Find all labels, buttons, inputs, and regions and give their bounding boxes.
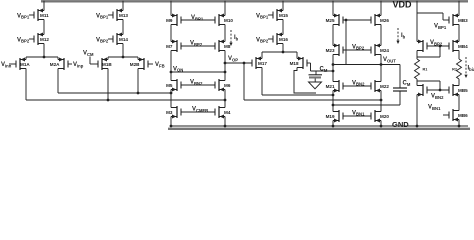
label VBP2 output row — [352, 44, 365, 50]
wire node VON — [170, 71, 227, 74]
svg-text:M11: M11 — [40, 13, 49, 18]
wire M10 source to VDD — [224, 1, 226, 16]
svg-text:M3: M3 — [166, 110, 173, 115]
wire gate node down to R1 top — [417, 46, 440, 57]
wire M22 source to M20 drain — [380, 91, 382, 112]
svg-text:MB6: MB6 — [458, 113, 468, 118]
wire M14 drain to pair B tail — [122, 44, 124, 58]
svg-text:M1B: M1B — [102, 62, 112, 67]
svg-text:M22: M22 — [380, 84, 389, 89]
label VBN1 bias and MB6 gate lead — [428, 105, 449, 116]
current arrow Ibias — [464, 57, 474, 78]
svg-text:M6: M6 — [224, 83, 231, 88]
resistor R1 — [415, 59, 420, 79]
wire M13 drain to M14 source — [122, 20, 124, 35]
svg-text:VBN1: VBN1 — [428, 105, 441, 111]
svg-text:CM: CM — [320, 67, 328, 73]
svg-text:VBP1: VBP1 — [191, 15, 204, 21]
current arrow Ib right — [396, 28, 405, 44]
wire pair A tail — [26, 57, 58, 60]
wire M8 drain to M6 drain (node VOP) — [224, 51, 226, 81]
svg-text:M17: M17 — [258, 61, 267, 66]
transistor M17 — [252, 57, 267, 70]
label VBP1 row — [191, 15, 204, 21]
transistor M12 — [34, 33, 49, 46]
svg-text:M5: M5 — [166, 83, 173, 88]
label VFB — [148, 62, 165, 68]
wire MB3 source to VDD — [458, 1, 460, 16]
svg-text:VBP2: VBP2 — [190, 41, 203, 47]
transistor M24 — [371, 44, 389, 57]
svg-text:Vinp: Vinp — [73, 62, 84, 68]
wire M25-M26 gates down to VOUT — [345, 20, 347, 65]
label VBP1 for M13 — [96, 13, 113, 19]
wire M18 drain routing — [294, 68, 316, 94]
wire M2A drain down — [57, 69, 59, 94]
label VBP1 for M11 — [17, 13, 34, 19]
wire M21 source to M19 drain — [332, 91, 335, 112]
wire M12 drain to pair A tail — [43, 44, 45, 58]
svg-text:GND: GND — [392, 120, 409, 129]
label CM right — [403, 81, 411, 87]
svg-text:VBP2: VBP2 — [352, 44, 365, 50]
label VBP2 for M16 — [256, 37, 273, 43]
transistor M1B — [98, 58, 112, 71]
transistor M16 — [273, 33, 288, 46]
transistor M25 — [326, 14, 343, 27]
wire cascode compensation — [333, 104, 400, 106]
capacitor CM left — [309, 71, 323, 82]
label VCM and wire to M1B gate — [83, 51, 98, 65]
label VOP — [228, 56, 238, 62]
wire node VOP to M17 gate — [224, 62, 252, 65]
label VBP2 for M14 — [96, 37, 113, 43]
wire M26 drain to M24 source — [380, 25, 382, 46]
transistor bias mirror PMOS — [417, 40, 427, 53]
transistor M4 — [215, 106, 231, 119]
svg-text:VBP1: VBP1 — [17, 13, 30, 19]
label VBP2 for M12 — [17, 37, 34, 43]
svg-text:M21: M21 — [326, 84, 335, 89]
transistor M20 — [371, 110, 389, 123]
wire MB4 drain to R2 top — [458, 51, 460, 60]
svg-text:M23: M23 — [326, 48, 335, 53]
svg-text:Ibias: Ibias — [468, 66, 474, 72]
svg-text:VCM: VCM — [83, 51, 94, 57]
svg-text:VBP1: VBP1 — [434, 24, 447, 30]
wire M2B drain down — [137, 69, 139, 94]
transistor M6 — [215, 79, 231, 92]
label R2 — [452, 68, 457, 72]
svg-text:VBN2: VBN2 — [190, 80, 203, 86]
svg-text:Ib: Ib — [401, 33, 406, 39]
wire M7 gate to M8 gate — [181, 45, 215, 47]
svg-text:MB4: MB4 — [458, 44, 468, 49]
wire bias VBN2 gates — [427, 89, 449, 92]
label VBN2 row — [190, 80, 203, 86]
label VCMFB row — [192, 107, 208, 113]
node M6 source junction — [224, 99, 227, 102]
wire MB5 source to MB6 drain — [458, 95, 460, 111]
svg-text:VBP2: VBP2 — [96, 37, 109, 43]
svg-text:M25: M25 — [326, 18, 335, 23]
svg-text:VBN2: VBN2 — [352, 80, 365, 86]
node M5 source junction — [170, 92, 173, 95]
svg-text:VFB: VFB — [155, 62, 165, 68]
svg-text:VBP2: VBP2 — [430, 40, 443, 46]
svg-text:VOP: VOP — [228, 56, 238, 62]
label VON — [173, 66, 183, 72]
transistor bias mirror NMOS — [417, 84, 427, 97]
wire VOUT — [332, 63, 400, 66]
svg-text:VOUT: VOUT — [383, 57, 396, 63]
svg-text:M10: M10 — [224, 18, 233, 23]
svg-text:M20: M20 — [380, 114, 389, 119]
svg-text:MB5: MB5 — [458, 88, 468, 93]
wire M1B drain down — [107, 69, 109, 101]
wire M15 drain to M16 source — [282, 20, 284, 35]
wire R2 bottom to MB5 drain — [458, 79, 460, 86]
transistor M15 — [273, 9, 288, 22]
wire net to M5 source — [58, 92, 171, 94]
wire M23 drain to M21 drain — [332, 55, 334, 82]
transistor M21 — [326, 80, 343, 93]
node M17 drain to M21 source — [332, 94, 335, 97]
transistor M26 — [371, 14, 389, 27]
wire MB3 drain to MB4 source — [458, 25, 460, 42]
svg-text:M19: M19 — [326, 114, 335, 119]
svg-text:VDD: VDD — [393, 0, 413, 9]
svg-text:MB3: MB3 — [458, 18, 468, 23]
wire M16 drain to second stage tail — [282, 44, 284, 53]
transistor M2B — [130, 58, 148, 71]
wire M21 gate to M22 gate — [343, 85, 371, 87]
svg-text:M24: M24 — [380, 48, 389, 53]
wire M25 drain to M23 source — [332, 25, 334, 46]
svg-text:Ib: Ib — [234, 35, 239, 41]
wire VOP node down and right to M20 drain node — [244, 63, 382, 101]
transistor MB3 — [449, 14, 468, 27]
wire net to M6 source — [26, 99, 225, 101]
svg-text:M4: M4 — [224, 110, 231, 115]
current arrow Ib left — [229, 30, 238, 46]
node pair B tail junction — [122, 56, 125, 59]
svg-text:M2B: M2B — [130, 62, 140, 67]
label VBP2 bias — [430, 40, 443, 46]
label VBP1 for M15 — [256, 13, 273, 19]
wire second stage tail — [262, 51, 297, 59]
label VDD — [393, 0, 413, 9]
transistor M2A — [50, 58, 68, 71]
transistor M3 — [166, 106, 181, 119]
wire bias PMOS drain — [416, 51, 418, 60]
wire M13 source to VDD — [122, 1, 124, 11]
svg-text:M1A: M1A — [20, 62, 30, 67]
svg-text:VBP2: VBP2 — [256, 37, 269, 43]
transistor M13 — [113, 9, 128, 22]
ground symbol — [309, 82, 322, 89]
wire M3 source to GND — [170, 117, 173, 128]
wire M20 source to GND — [380, 121, 383, 128]
transistor M14 — [113, 33, 128, 46]
label R1 — [423, 68, 428, 72]
wire M24 drain to M22 drain (VOUT) — [380, 55, 383, 82]
wire M25 gate to M26 gate — [343, 19, 371, 22]
transistor M1A — [16, 58, 30, 71]
wire M15 source to VDD — [282, 1, 284, 11]
svg-text:M14: M14 — [119, 37, 128, 42]
label Vinn — [1, 62, 16, 68]
transistor MB5 — [449, 84, 468, 97]
label CM left — [320, 67, 328, 73]
svg-text:VBP1: VBP1 — [256, 13, 269, 19]
label Vinp — [68, 62, 84, 68]
wire M25 source to VDD — [332, 1, 334, 16]
svg-text:M16: M16 — [279, 37, 288, 42]
transistor M22 — [371, 80, 389, 93]
svg-text:M8: M8 — [224, 44, 231, 49]
wire M18 gate to M23 drain column — [307, 63, 334, 72]
bottom rail GND — [168, 126, 470, 129]
transistor MB4 — [449, 40, 468, 53]
svg-text:VBP1: VBP1 — [96, 13, 109, 19]
wire M3 gate to M4 gate — [181, 111, 215, 113]
svg-text:CM: CM — [403, 81, 411, 87]
svg-text:VBP2: VBP2 — [17, 37, 30, 43]
transistor M7 — [166, 40, 181, 53]
transistor M11 — [34, 9, 49, 22]
svg-text:M15: M15 — [279, 13, 288, 18]
wire M5 source to M3 drain — [170, 90, 172, 108]
wire R1 bottom bracket — [417, 79, 440, 90]
label VBN2 bias — [431, 94, 444, 100]
svg-text:VBN1: VBN1 — [352, 110, 365, 116]
label VBN2 output row — [352, 80, 365, 86]
svg-text:VON: VON — [173, 66, 183, 72]
transistor M9 — [166, 14, 181, 27]
wire bias VBP2 gates — [427, 45, 449, 48]
svg-text:VCMFB: VCMFB — [192, 107, 208, 113]
wire pair B tail — [108, 57, 138, 60]
wire M10 drain to M8 source — [224, 25, 226, 42]
wire M9 drain to M7 source — [170, 25, 172, 42]
wire M11 source to VDD — [43, 1, 45, 11]
wire M7 drain to M5 drain (node VON) — [170, 51, 172, 81]
transistor M23 — [326, 44, 343, 57]
svg-text:M9: M9 — [166, 18, 173, 23]
label GND — [392, 120, 409, 129]
wire M17 drain down to cascode node — [262, 68, 333, 96]
wire M19 gate to M20 gate — [343, 115, 371, 117]
wire M5 gate to M6 gate — [181, 84, 215, 86]
transistor M5 — [166, 79, 181, 92]
capacitor CM right — [393, 65, 407, 106]
wire M4 source to GND — [224, 117, 227, 128]
node pair A tail junction — [43, 56, 46, 59]
svg-text:M12: M12 — [40, 37, 49, 42]
wire M11 drain to M12 source — [43, 20, 45, 35]
top rail VDD — [41, 0, 468, 2]
wire MB3 gate diode connection — [417, 13, 449, 20]
wire MB6 source to GND — [458, 120, 461, 128]
svg-text:R2: R2 — [452, 68, 457, 72]
svg-text:M26: M26 — [380, 18, 389, 23]
wire M19 source to GND — [332, 121, 335, 128]
node M1B drain junction — [107, 99, 110, 102]
wire bias NMOS source to GND — [416, 95, 419, 128]
node M2B drain junction — [137, 92, 140, 95]
svg-text:M13: M13 — [119, 13, 128, 18]
label VOUT — [383, 57, 396, 63]
svg-text:M18: M18 — [290, 61, 299, 66]
wire bias PMOS source to VDD — [416, 1, 418, 42]
transistor M19 — [326, 110, 343, 123]
transistor MB6 — [449, 109, 468, 122]
wire M9 gate to M10 gate — [181, 19, 215, 21]
wire M26 source to VDD — [380, 1, 382, 16]
transistor M18 — [290, 57, 307, 70]
label VBN1 output row — [352, 110, 365, 116]
transistor M10 — [215, 14, 233, 27]
svg-text:M2A: M2A — [50, 62, 60, 67]
svg-text:M7: M7 — [166, 44, 173, 49]
wire M23 gate to M24 gate — [343, 49, 371, 51]
svg-text:Vinn: Vinn — [1, 62, 12, 68]
wire M9 source to VDD — [170, 1, 172, 16]
label VBP2 row — [190, 41, 203, 47]
label VBP1 bias — [434, 24, 447, 30]
transistor M8 — [215, 40, 231, 53]
wire M6 source to M4 drain — [224, 90, 226, 108]
resistor R2 — [457, 59, 462, 79]
svg-text:R1: R1 — [423, 68, 428, 72]
svg-text:VBN2: VBN2 — [431, 94, 444, 100]
wire M1A drain down — [25, 69, 27, 101]
